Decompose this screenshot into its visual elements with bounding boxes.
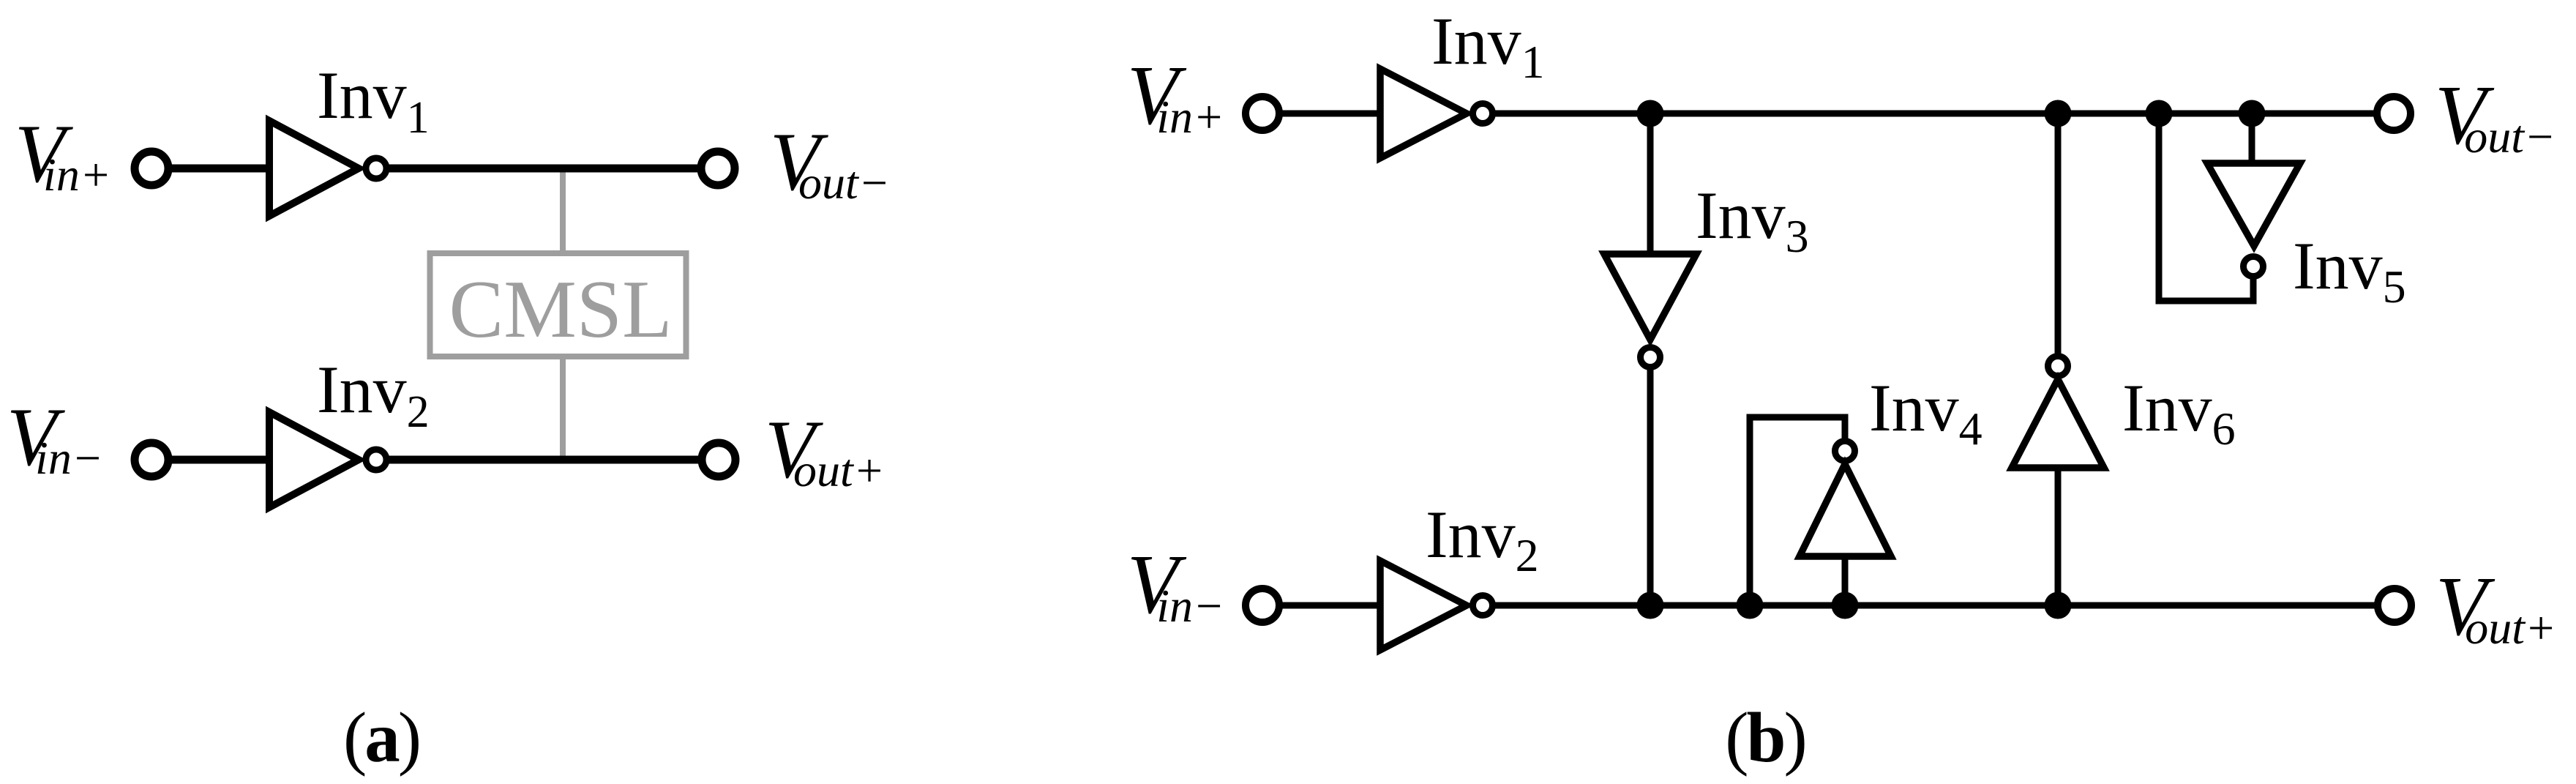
bubble Inv2 (b) [1473,596,1493,616]
wire [386,456,703,464]
svg-text:Vout+: Vout+ [765,404,885,496]
node dot top 4 [2239,100,2266,127]
wire Inv3 input [1647,113,1654,257]
svg-text:Vout+: Vout+ [2435,560,2556,654]
wire [167,165,272,173]
wire Inv4 input stub [1842,556,1849,605]
wire [386,165,703,173]
svg-text:Inv4: Inv4 [1869,370,1982,455]
wire [1278,602,1383,609]
output terminal a-bottom [702,443,735,477]
svg-text:Inv2: Inv2 [1426,497,1539,581]
wire Inv6 output up [2055,113,2062,356]
node dot top 3 [2146,100,2173,127]
inverter Inv1 (b) [1380,69,1467,158]
svg-text:Vout−: Vout− [2435,69,2556,163]
wire [167,456,272,464]
svg-text:Vin−: Vin− [7,392,103,484]
svg-text:Inv5: Inv5 [2293,228,2406,313]
inverter Inv4 [1800,464,1891,556]
bubble Inv4 [1835,441,1855,461]
inverter Inv1 (a) [269,121,359,216]
node dot top 2 [2045,100,2072,127]
bubble Inv5 [2244,257,2264,277]
node dot top 1 [1637,100,1664,127]
input terminal b-bottom [1246,589,1279,622]
svg-text:Inv1: Inv1 [317,58,430,143]
output terminal a-top [701,152,735,185]
svg-text:Inv2: Inv2 [317,352,430,437]
wire Inv5 feedback loop [2159,113,2253,301]
svg-text:Vin−: Vin− [1127,538,1224,632]
wire Inv5 input [2249,113,2255,166]
svg-text:(a): (a) [343,698,419,777]
wire Inv3 output [1647,368,1654,605]
svg-text:Vout−: Vout− [770,116,890,209]
bottom wire (b) [1494,602,2379,609]
output terminal b-top [2377,97,2411,130]
bubble Inv6 [2048,356,2068,376]
inverter Inv2 (a) [269,412,359,507]
top wire (b) [1494,111,2378,117]
input terminal b-top [1246,97,1279,130]
svg-text:Vin+: Vin+ [15,108,111,201]
inverter Inv3 [1604,254,1696,340]
inverter Inv2 (b) [1380,561,1467,650]
svg-text:Inv1: Inv1 [1431,4,1545,88]
gray wire CMSL top [560,168,566,252]
inverter Inv6 [2012,379,2104,468]
wire Inv4 feedback loop [1750,417,1845,605]
bubble Inv3 [1641,348,1660,367]
output terminal b-bottom [2378,589,2411,622]
node dot bottom 1 [1637,592,1664,619]
svg-text:CMSL: CMSL [449,264,673,355]
node dot bottom 4 [2045,592,2072,619]
input terminal a-bottom [135,443,168,477]
CMSL box [430,253,686,356]
input terminal a-top [135,152,168,185]
node dot bottom 2 [1737,592,1764,619]
svg-text:(b): (b) [1725,698,1805,777]
inverter Inv5 [2207,163,2300,246]
bubble Inv1 (b) [1473,104,1493,124]
node dot bottom 3 [1832,592,1859,619]
wire Inv6 input [2055,468,2062,605]
gray wire CMSL bottom [560,358,566,460]
svg-text:Inv6: Inv6 [2122,370,2236,455]
svg-text:Inv3: Inv3 [1696,178,1809,262]
bubble Inv2 (a) [366,449,386,470]
wire [1278,111,1383,117]
svg-text:Vin+: Vin+ [1127,49,1224,143]
bubble Inv1 (a) [366,158,386,179]
